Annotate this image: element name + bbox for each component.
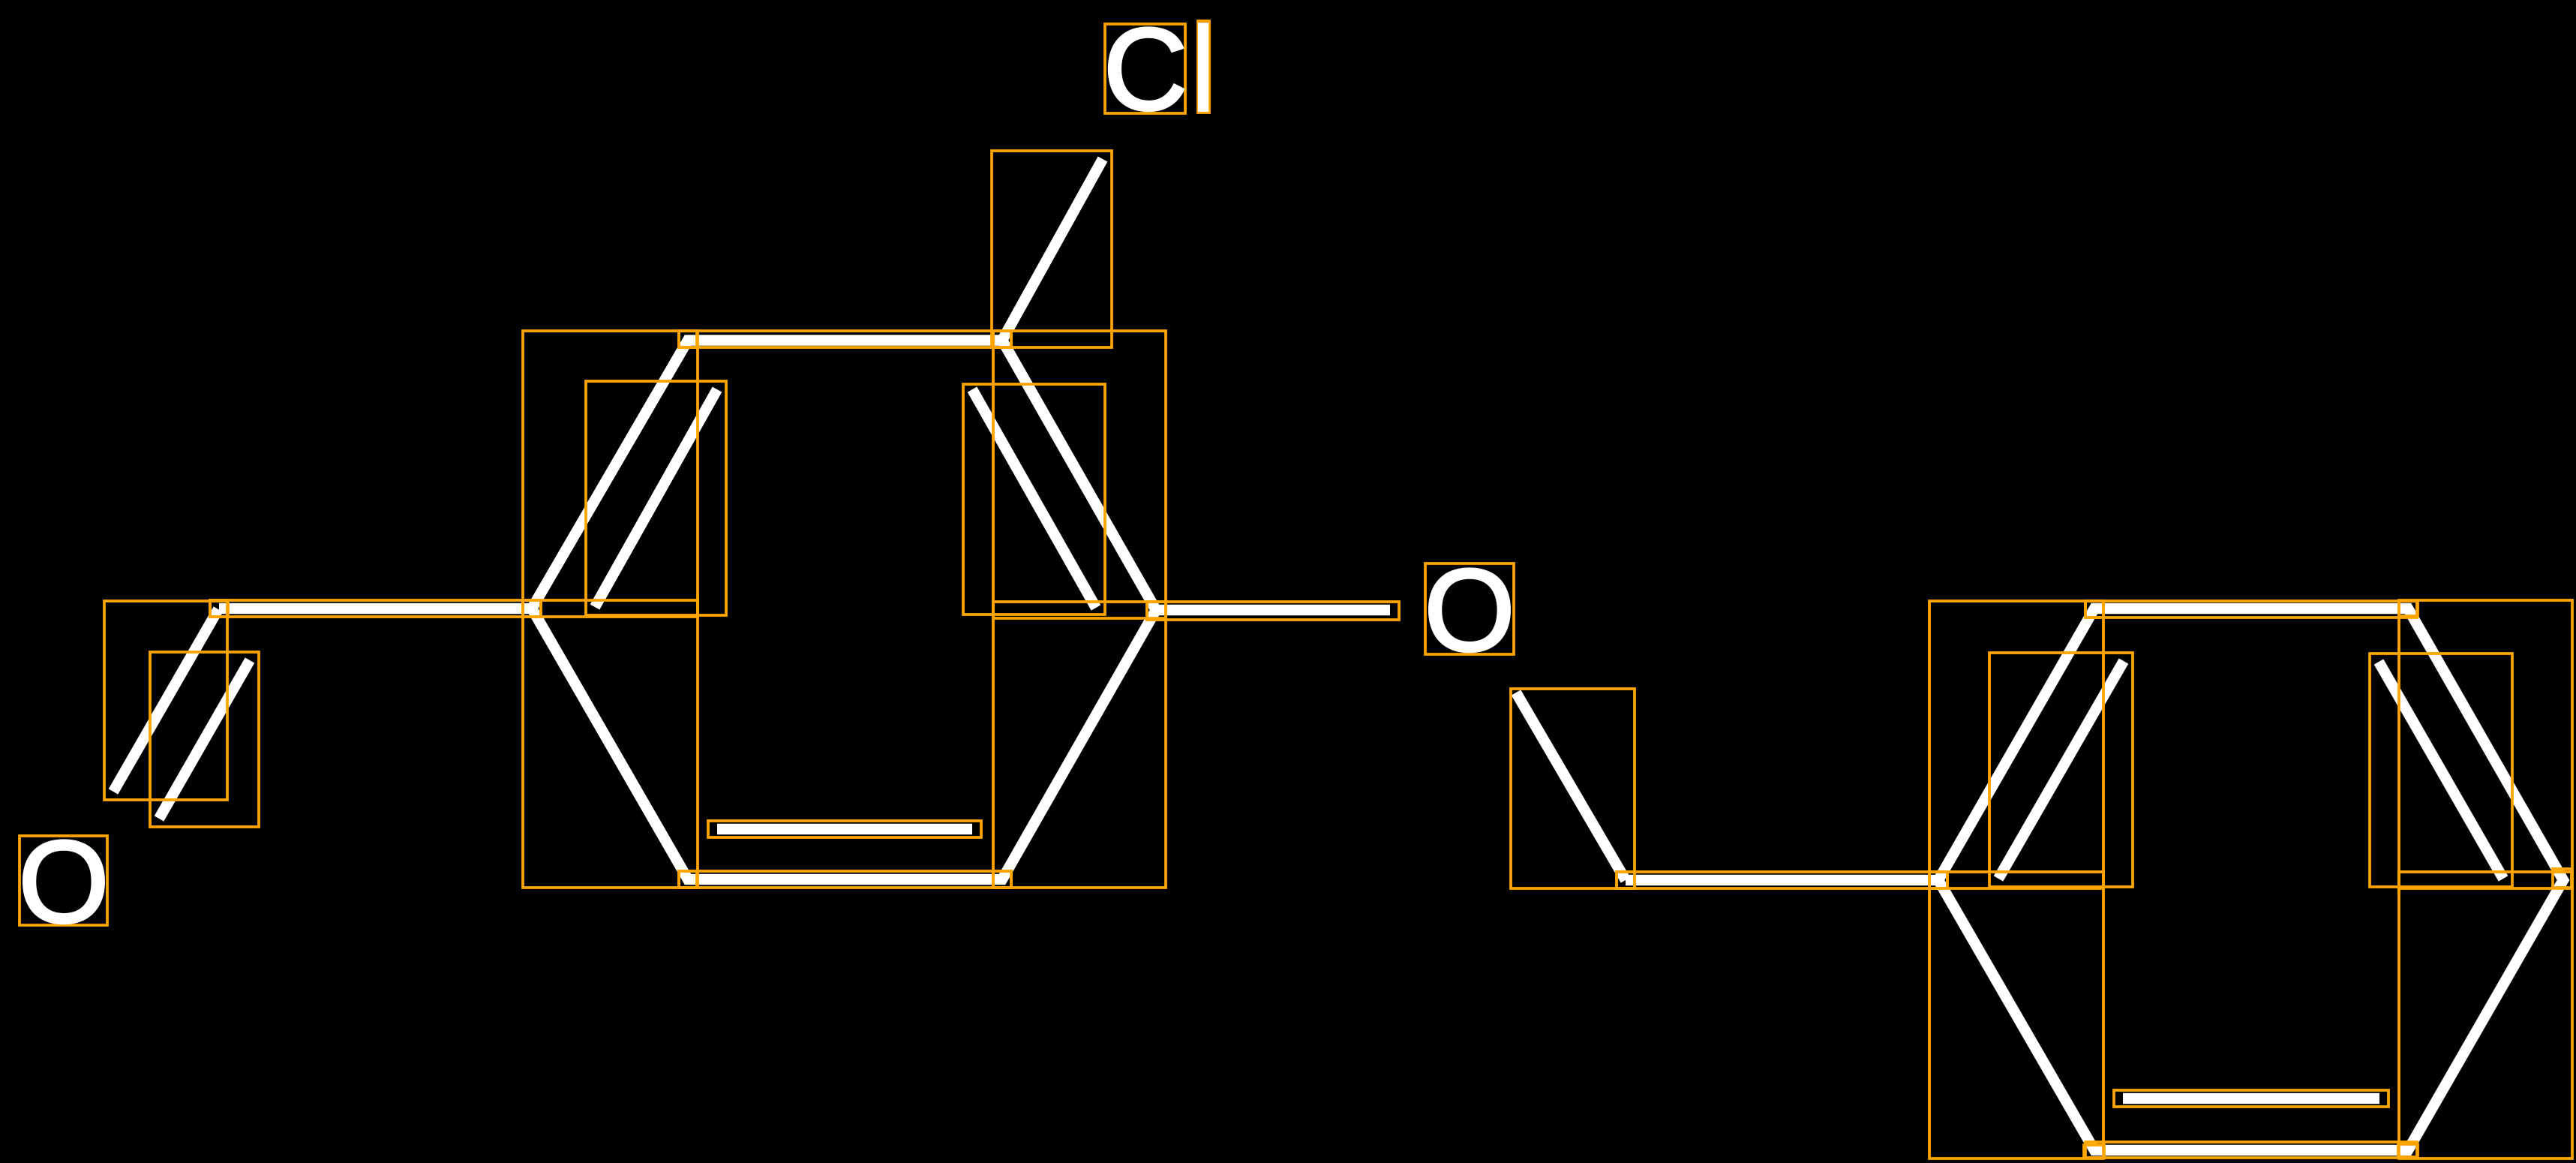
bond bbox C3-Cl — [992, 151, 1112, 347]
atom box B6 — [2084, 1145, 2104, 1158]
ring B inner double line B3-B4 — [2379, 662, 2503, 879]
atom box C8 — [1617, 872, 1635, 888]
benzene ring A outline — [532, 341, 1156, 880]
label box Cl letter C — [1105, 24, 1185, 113]
bond bbox ring B B6-B1 — [1929, 872, 2103, 1158]
ring A inner double line C3-C4 — [972, 389, 1096, 608]
bbox ring A inner line 3 — [708, 821, 981, 837]
label box Cl letter l — [1198, 21, 1209, 113]
bbox ring B inner line 2 — [2370, 654, 2512, 887]
atom box B4 — [2553, 869, 2571, 888]
atom box C1 — [523, 600, 541, 617]
svg-text:O: O — [18, 817, 109, 948]
bond C8-B1 — [1626, 875, 1938, 886]
bond bbox ring A C6-C1 — [523, 600, 698, 888]
bond bbox ring A bottom C5-C6 — [679, 871, 1011, 888]
ring B inner double line B1-B2 — [1998, 661, 2124, 879]
svg-text:l: l — [1190, 1, 1217, 138]
bond C7=O1 line1 — [113, 609, 218, 792]
bond bbox ring B B4-B5 — [2399, 872, 2572, 1158]
bond bbox ring A C1-C2 — [523, 331, 698, 617]
bbox ring B inner line 3 — [2114, 1090, 2388, 1107]
bond bbox C7-C1 — [210, 600, 541, 617]
bond bbox C7=O1 line1 — [104, 601, 227, 800]
bond C7=O1 line2 — [159, 660, 250, 819]
bond bbox O2-C8 — [1511, 689, 1635, 888]
atom box B1 — [1929, 872, 1947, 888]
bbox ring A inner line 2 — [963, 384, 1105, 615]
bond bbox ring B B3-B4 — [2399, 600, 2572, 888]
benzene ring B outline — [1938, 609, 2563, 1150]
label box O1 — [20, 836, 107, 925]
bond bbox C8-B1 — [1617, 872, 1947, 888]
bond C7-C1 aldehyde to ring — [219, 603, 532, 615]
ring B inner double line B5-B6 — [2123, 1093, 2379, 1104]
atom box C5 — [993, 871, 1011, 888]
bbox ring A inner line 1 — [586, 381, 726, 615]
atom box C2 — [679, 331, 697, 347]
atom box B5 — [2398, 1144, 2418, 1157]
bond bbox ring B top B2-B3 — [2085, 601, 2417, 618]
bond C4-O2 — [1156, 605, 1390, 616]
bond bbox C4-O2 — [1147, 602, 1399, 620]
bond bbox ring A C3-C4 — [993, 331, 1166, 618]
bond bbox ring A C4-C5 — [993, 602, 1166, 888]
bond O2-C8 — [1516, 693, 1626, 880]
atom box C7 — [210, 600, 228, 617]
atom box B2 — [2085, 601, 2103, 618]
bond bbox ring B B1-B2 — [1929, 601, 2103, 888]
svg-text:O: O — [1424, 545, 1515, 676]
bond bbox C7=O1 line2 — [150, 652, 259, 827]
label box O2 — [1425, 563, 1514, 654]
atom box C6 — [679, 871, 697, 888]
bond bbox ring A top C2-C3 — [679, 331, 1011, 347]
atom box C3 — [993, 331, 1011, 347]
svg-text:C: C — [1103, 5, 1188, 135]
atom box B3 — [2399, 601, 2418, 616]
bond bbox ring B bottom B5-B6 — [2085, 1142, 2417, 1158]
bbox ring B inner line 1 — [1989, 653, 2133, 887]
atom box C4 — [1147, 602, 1166, 620]
ring A inner double line C5-C6 — [717, 824, 972, 835]
ring A inner double line C1-C2 — [595, 389, 717, 607]
bond C3-Cl — [1002, 159, 1103, 341]
